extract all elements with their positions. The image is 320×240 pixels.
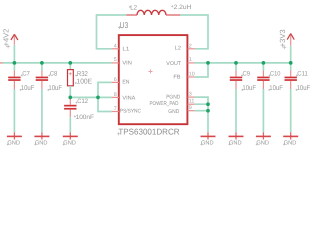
- svg-text:C9: C9: [243, 71, 251, 78]
- pin 5 VIN stub: [112, 62, 119, 64]
- svg-text:10uF: 10uF: [297, 85, 311, 92]
- ground GND (C9): [228, 132, 243, 146]
- svg-text:PS/SYNC: PS/SYNC: [120, 108, 141, 114]
- ground GND (C11): [283, 132, 298, 146]
- capacitor C12: [64, 97, 76, 132]
- ground GND (IC): [200, 132, 215, 146]
- net label +3V3: [278, 29, 287, 49]
- junction: POWER_PAD: [206, 102, 210, 106]
- value 100E: [75, 78, 93, 85]
- label C7: [21, 71, 30, 78]
- junction: EN / VINA / PS-SYNC: [96, 96, 100, 100]
- svg-text:C10: C10: [270, 71, 281, 78]
- svg-text:+3V3: +3V3: [278, 29, 287, 47]
- junction: rail / R32: [68, 61, 72, 65]
- svg-text:8: 8: [114, 92, 117, 98]
- label C11: [296, 71, 308, 78]
- value 10uF (C11): [296, 85, 311, 92]
- wire: GND pin to vertical: [195, 110, 208, 112]
- junction: rail / +4V2 / C7: [13, 61, 17, 65]
- net label +4V2: [2, 29, 11, 49]
- wire: VOUT rail: [195, 62, 291, 64]
- pin 2 L2 stub: [188, 48, 195, 50]
- svg-text:2: 2: [189, 43, 192, 49]
- pin 9 GND stub: [188, 110, 195, 112]
- svg-text:+4V2: +4V2: [2, 29, 11, 47]
- svg-text:100E: 100E: [77, 78, 93, 85]
- power supply +4V2: [11, 34, 18, 63]
- svg-text:GND: GND: [229, 140, 242, 147]
- capacitor C9: [230, 63, 242, 132]
- svg-text:L1: L1: [122, 46, 129, 52]
- label C10: [269, 71, 281, 78]
- svg-text:VINA: VINA: [122, 95, 135, 101]
- svg-text:10uF: 10uF: [242, 85, 256, 92]
- junction: R32 / C12 / VINA: [68, 96, 72, 100]
- svg-text:FB: FB: [173, 75, 181, 81]
- wire: VIN rail: [3, 62, 112, 64]
- wire: EN branch: [98, 82, 112, 97]
- svg-text:GND: GND: [63, 140, 76, 147]
- label C8: [48, 71, 57, 78]
- value 10uF (C8): [47, 85, 62, 92]
- svg-text:3: 3: [189, 92, 192, 98]
- ground GND (C10): [256, 132, 271, 146]
- label C9: [241, 71, 250, 78]
- origin cross U3: [149, 70, 153, 74]
- wire: PGND/POWER_PAD/GND vertical: [195, 97, 208, 132]
- pin 10 FB stub: [188, 76, 195, 78]
- junction: VOUT rail / C10: [262, 61, 266, 65]
- value 100nF: [74, 114, 94, 121]
- wire: VIN rail off-page red tip: [0, 62, 3, 64]
- ground GND (C8): [34, 132, 49, 146]
- capacitor C7: [8, 63, 20, 132]
- junction: GND pin: [206, 109, 210, 113]
- svg-text:10uF: 10uF: [48, 85, 62, 92]
- label C12: [75, 98, 88, 105]
- svg-text:GND: GND: [35, 140, 48, 147]
- ground GND (C7): [7, 132, 22, 146]
- svg-text:7: 7: [114, 106, 117, 112]
- svg-text:1: 1: [189, 57, 192, 63]
- op-amp U1: IC body U3 TPS63001: [119, 35, 188, 124]
- label U3: [118, 20, 129, 30]
- inductor L2 loop: wire from L1 pin up and across: [97, 15, 127, 49]
- svg-text:R32: R32: [77, 71, 88, 78]
- value 10uF (C10): [268, 85, 283, 92]
- capacitor C11: [285, 63, 297, 132]
- svg-text:6: 6: [114, 77, 117, 83]
- wire: VINA net horizontal: [70, 96, 111, 98]
- svg-text:11: 11: [189, 99, 195, 105]
- capacitor C10: [257, 63, 269, 132]
- svg-text:PGND: PGND: [166, 95, 180, 101]
- svg-text:2.2uH: 2.2uH: [174, 4, 192, 11]
- pin 8 VINA stub: [112, 96, 119, 98]
- ground GND (C12): [63, 132, 78, 146]
- svg-text:100nF: 100nF: [76, 114, 95, 121]
- svg-text:GND: GND: [284, 140, 297, 147]
- wire: FB branch: [195, 63, 208, 77]
- junction: VOUT rail / C11 / +3V3: [289, 61, 293, 65]
- junction: rail / C8: [40, 61, 44, 65]
- pin 6 EN stub: [112, 81, 119, 83]
- svg-text:EN: EN: [122, 80, 129, 86]
- svg-text:POWER_PAD: POWER_PAD: [150, 101, 179, 107]
- value 2.2uH: [171, 4, 192, 11]
- value 10uF (C7): [20, 85, 35, 92]
- svg-text:10uF: 10uF: [269, 85, 283, 92]
- svg-text:TPS63001DRCR: TPS63001DRCR: [118, 126, 179, 136]
- svg-text:GND: GND: [7, 140, 20, 147]
- svg-text:5: 5: [114, 57, 117, 63]
- svg-text:GND: GND: [168, 109, 179, 115]
- resistor R32: [68, 63, 74, 98]
- wire: PS/SYNC branch: [98, 97, 112, 111]
- svg-text:VIN: VIN: [122, 60, 132, 66]
- svg-text:GND: GND: [201, 140, 214, 147]
- pin 4 L1 stub: [112, 48, 119, 50]
- label L2: [129, 4, 138, 11]
- svg-text:GND: GND: [256, 140, 269, 147]
- svg-text:U3: U3: [120, 20, 129, 30]
- svg-text:10: 10: [189, 72, 195, 78]
- value 10uF (C9): [241, 85, 256, 92]
- svg-text:9: 9: [189, 105, 192, 111]
- pin 3 PGND stub: [188, 96, 195, 98]
- pin 7 PS/SYNC stub: [112, 111, 119, 113]
- svg-text:VOUT: VOUT: [166, 61, 181, 67]
- svg-text:C7: C7: [22, 71, 30, 78]
- junction: VOUT rail / C9: [234, 61, 238, 65]
- capacitor C8: [36, 63, 48, 132]
- svg-text:C11: C11: [297, 71, 308, 78]
- pin 11 POWER_PAD stub: [188, 103, 195, 105]
- svg-text:L2: L2: [130, 4, 137, 11]
- power supply +3V3: [287, 34, 294, 63]
- label R32: [75, 71, 88, 78]
- value TPS63001DRCR: [117, 126, 180, 136]
- inductor L2: [126, 10, 180, 15]
- junction: VOUT rail / FB: [206, 61, 210, 65]
- wire: POWER_PAD to vertical: [195, 103, 208, 105]
- pin 1 VOUT stub: [188, 62, 195, 64]
- svg-text:4: 4: [114, 43, 117, 49]
- wire: top right down to L2 pin: [180, 15, 208, 49]
- svg-text:L2: L2: [175, 46, 181, 52]
- svg-text:10uF: 10uF: [21, 85, 35, 92]
- svg-text:C12: C12: [77, 98, 88, 105]
- svg-text:C8: C8: [50, 71, 58, 78]
